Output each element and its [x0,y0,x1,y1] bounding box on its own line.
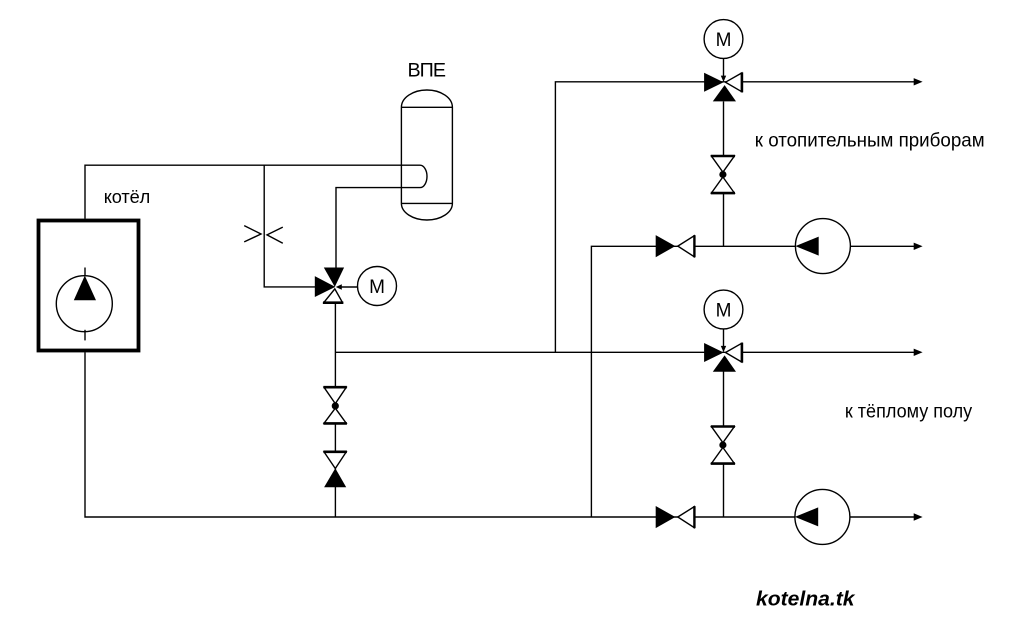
svg-text:ВПЕ: ВПЕ [408,60,447,82]
svg-text:M: M [369,277,385,298]
svg-text:котёл: котёл [104,187,151,207]
svg-text:к тёплому полу: к тёплому полу [845,401,973,423]
svg-text:kotelna.tk: kotelna.tk [756,589,855,611]
svg-text:M: M [716,30,732,51]
svg-text:к отопительным приборам: к отопительным приборам [755,129,985,151]
svg-text:M: M [716,301,732,322]
